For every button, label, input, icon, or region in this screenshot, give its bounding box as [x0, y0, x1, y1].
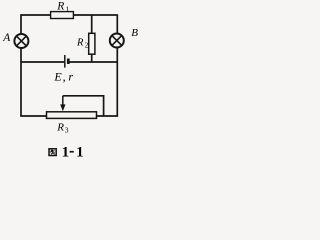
wire slider vertical [103, 95, 105, 116]
label R1 [56, 1, 69, 14]
wire R2 bottom stub [91, 54, 93, 62]
svg-text:A: A [2, 32, 11, 44]
wire left rail [20, 14, 22, 116]
label R3 [56, 122, 69, 135]
wire middle rail right segment [69, 61, 117, 63]
wire slider horizontal [63, 95, 104, 97]
caption 1-1 [62, 145, 84, 161]
lamp A [14, 34, 28, 48]
caption figure glyph [49, 149, 56, 156]
wire right rail [116, 14, 118, 116]
lamp B [110, 34, 124, 48]
svg-text:2: 2 [85, 42, 89, 50]
rheostat R3 [47, 112, 97, 119]
battery E long plate [64, 55, 66, 68]
wire middle rail left segment [21, 61, 64, 63]
svg-text:,: , [63, 69, 66, 83]
label R2 [76, 37, 89, 49]
resistor R1 [51, 12, 74, 19]
svg-text:R: R [56, 122, 64, 134]
resistor R2 [89, 33, 95, 54]
svg-text:B: B [131, 27, 138, 39]
wire R2 top stub [91, 15, 93, 34]
svg-text:1: 1 [65, 4, 69, 13]
label E,r [53, 69, 73, 83]
wire top rail [21, 14, 117, 16]
svg-text:R: R [56, 1, 64, 13]
battery E short plate [67, 59, 70, 65]
rheostat slider arrow [60, 96, 65, 112]
svg-text:r: r [68, 69, 73, 83]
wire bottom rail [20, 115, 118, 117]
svg-text:1: 1 [62, 145, 70, 161]
svg-text:R: R [76, 37, 84, 48]
svg-text:3: 3 [65, 126, 69, 135]
svg-text:1: 1 [76, 145, 84, 161]
svg-text:E: E [53, 69, 62, 83]
